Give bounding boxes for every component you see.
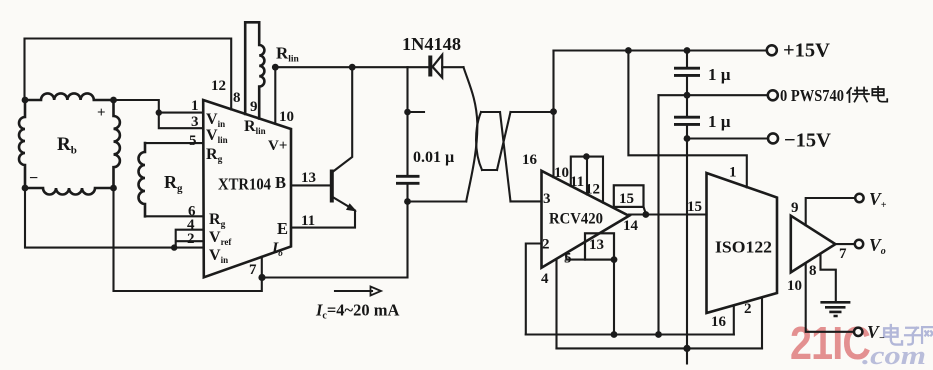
svg-text:8: 8 — [809, 263, 817, 279]
transistor Q1 base wire pin 13 — [291, 184, 330, 186]
node rail1 pws — [655, 331, 662, 338]
svg-text:Ic=4~20 mA: Ic=4~20 mA — [315, 301, 399, 322]
transistor Q1 emitter — [291, 197, 355, 228]
svg-text:4: 4 — [541, 271, 549, 287]
svg-text:12: 12 — [211, 78, 226, 94]
svg-text:−: − — [29, 170, 38, 187]
node pins 1-3 junction — [156, 109, 162, 115]
op-amp A1 body — [791, 216, 836, 273]
svg-text:ISO122: ISO122 — [715, 238, 772, 257]
wire top-left rail to pin 12 — [25, 39, 232, 110]
op-amp U2 RCV420 body — [542, 171, 630, 268]
twisted pair loop — [476, 112, 500, 170]
wire -15 vertical — [686, 139, 688, 364]
transistor Q1 bar — [330, 170, 334, 203]
capacitor C2 1u plates — [674, 68, 700, 75]
node +15 rail right — [684, 47, 691, 54]
terminal V- — [854, 328, 862, 336]
resistor Rg coil — [139, 143, 146, 216]
wire twist to node A — [511, 111, 554, 113]
svg-text:8: 8 — [233, 90, 241, 106]
label gong — [847, 88, 869, 102]
svg-text:10: 10 — [279, 109, 294, 125]
wire +15V rail — [554, 49, 767, 51]
svg-text:13: 13 — [589, 237, 604, 253]
svg-text:15: 15 — [687, 199, 702, 215]
svg-text:14: 14 — [623, 218, 639, 234]
svg-text:−15V: −15V — [784, 130, 831, 152]
wire op-amp pin 10 to V- — [806, 263, 854, 332]
capacitor C2 1u wires — [686, 51, 688, 139]
wire ISO pin 16 stub — [733, 306, 735, 335]
node Rlin junction — [272, 64, 279, 71]
capacitor C1 0.01u plates — [396, 176, 420, 183]
terminal V+ — [855, 194, 863, 202]
node bridge top-right — [110, 97, 117, 104]
svg-text:+: + — [97, 105, 106, 121]
node +15 rail left — [625, 47, 632, 54]
wire -15V line — [687, 137, 768, 139]
wire op-amp pin 8 to ground — [821, 254, 836, 302]
svg-text:+15V: +15V — [783, 40, 830, 62]
wire 0 PWS740 line — [659, 94, 768, 96]
wire RCV output pin 14 to ISO pin 15 — [629, 213, 707, 215]
bridge R_b right arm — [114, 100, 120, 188]
node collector junction — [349, 64, 356, 71]
svg-text:E: E — [277, 219, 288, 238]
node A twist top — [550, 108, 557, 115]
svg-text:2: 2 — [744, 301, 752, 317]
node -15 junction — [684, 135, 691, 142]
svg-text:9: 9 — [250, 99, 258, 115]
svg-text:3: 3 — [543, 191, 551, 207]
node pins 11-12 — [583, 153, 590, 160]
wire pin 7 stub — [261, 257, 263, 278]
wire diode to twist — [442, 66, 463, 68]
node bridge bottom-left — [22, 185, 29, 192]
ground — [820, 302, 850, 316]
node rail1 pin13 — [611, 331, 618, 338]
ground rail 2 — [557, 347, 763, 349]
node pin 7 — [258, 274, 265, 281]
twisted pair top wire — [464, 67, 478, 201]
node RCV output — [642, 211, 649, 218]
wire pin 7 to capacitor bottom — [262, 202, 408, 278]
wire pins 11,12 stubs — [571, 157, 603, 203]
capacitor C3 1u plates — [674, 117, 700, 124]
svg-text:9: 9 — [791, 200, 799, 216]
node pws cap junction — [684, 92, 691, 99]
terminal +15V — [767, 45, 777, 55]
wire RCV pin 4 — [555, 259, 557, 348]
terminal -15V — [768, 133, 778, 143]
bridge R_b top arm — [25, 93, 114, 100]
wire +15V branch to ISO pin 1 — [628, 51, 746, 188]
svg-text:7: 7 — [249, 262, 257, 278]
svg-text:15: 15 — [619, 191, 634, 207]
wire pin 13 to ground rail — [613, 260, 615, 335]
svg-text:13: 13 — [301, 170, 316, 186]
wire pws vertical — [657, 95, 659, 334]
svg-text:2: 2 — [542, 237, 550, 253]
svg-text:7: 7 — [839, 246, 847, 262]
wire pin 15 box connector — [644, 207, 646, 214]
svg-text:16: 16 — [711, 314, 727, 330]
svg-text:1 µ: 1 µ — [708, 65, 731, 84]
wire op-amp pin 7 output — [835, 243, 854, 245]
bridge R_b left arm — [19, 100, 25, 188]
wire RCV pin 2 — [526, 244, 542, 335]
wire ISO pin 2 stub — [761, 298, 763, 349]
resistor Rg wire pin6 — [145, 215, 203, 217]
pin 13 box — [585, 233, 614, 259]
pin 15 box — [614, 185, 644, 207]
svg-text:0 PWS740: 0 PWS740 — [780, 86, 844, 105]
node bridge bottom-right — [110, 185, 117, 192]
svg-text:1N4148: 1N4148 — [402, 34, 461, 54]
watermark zi — [905, 328, 920, 345]
wire stub — [408, 111, 425, 113]
arrow Ic — [335, 290, 372, 292]
svg-text:RCV420: RCV420 — [549, 211, 603, 228]
svg-text:1 µ: 1 µ — [708, 112, 731, 131]
svg-text:3: 3 — [191, 114, 199, 130]
svg-text:0.01 µ: 0.01 µ — [413, 149, 454, 166]
ground rail 1 — [526, 333, 734, 335]
diode D1 1N4148 cathode bar — [428, 56, 432, 77]
capacitor C1 bottom wire — [406, 183, 408, 201]
terminal Vo — [855, 240, 863, 248]
svg-text:16: 16 — [522, 152, 538, 168]
wire pin 16 vertical — [552, 51, 554, 178]
node rail2 crossing — [683, 345, 690, 352]
op-amp U1 XTR104 body — [203, 100, 291, 277]
wire pin 10 — [274, 67, 276, 124]
svg-text:5: 5 — [564, 251, 572, 267]
node pins 4-2 junction — [171, 244, 177, 250]
terminal 0 PWS740 — [768, 90, 778, 100]
svg-text:2: 2 — [187, 231, 195, 247]
label dian1 — [872, 87, 887, 102]
svg-text:10: 10 — [787, 278, 802, 294]
wire bridge bottom-left to pins 4,2 — [25, 188, 203, 248]
resistor Rg wire pin5 — [145, 142, 203, 144]
wire top rail Rlin to diode — [275, 66, 428, 68]
node bridge top-left — [22, 97, 29, 104]
bridge R_b bottom arm — [25, 188, 114, 195]
svg-text:V+: V+ — [268, 138, 287, 154]
node pin 13 bottom — [611, 256, 618, 263]
transistor Q1 collector wire — [332, 67, 352, 172]
diode D1 1N4148 triangle — [433, 55, 443, 78]
svg-text:B: B — [275, 173, 286, 192]
wire op-amp pin 9 to V+ — [806, 198, 856, 225]
svg-text:11: 11 — [301, 213, 315, 229]
buffer U3 ISO122 body — [707, 173, 778, 313]
watermark wang — [922, 327, 933, 343]
node stub junction — [404, 109, 411, 116]
svg-text:5: 5 — [189, 133, 197, 149]
twisted pair crossing — [497, 112, 511, 201]
wire RCV pin 5 — [566, 254, 585, 260]
inductor Rlin — [245, 22, 264, 118]
svg-text:11: 11 — [570, 174, 584, 190]
wire bridge+ to pins 1,3 — [114, 100, 204, 128]
svg-text:10: 10 — [554, 165, 569, 181]
capacitor C1 0.01u top wire — [406, 67, 408, 176]
wire twist to RCV pin 3 — [511, 200, 542, 202]
svg-text:12: 12 — [585, 182, 600, 198]
node capacitor bottom — [404, 198, 411, 205]
wire capacitor to twist — [408, 200, 467, 202]
svg-text:1: 1 — [191, 98, 199, 114]
svg-text:XTR104: XTR104 — [218, 175, 271, 194]
svg-text:21IC: 21IC — [790, 317, 870, 369]
transistor Q1 emitter arrow — [346, 203, 357, 211]
watermark dian2 — [884, 325, 902, 345]
svg-text:1: 1 — [729, 165, 737, 181]
svg-text:.com: .com — [862, 341, 926, 370]
wire bridge bottom-right to pin 7 — [114, 188, 262, 291]
